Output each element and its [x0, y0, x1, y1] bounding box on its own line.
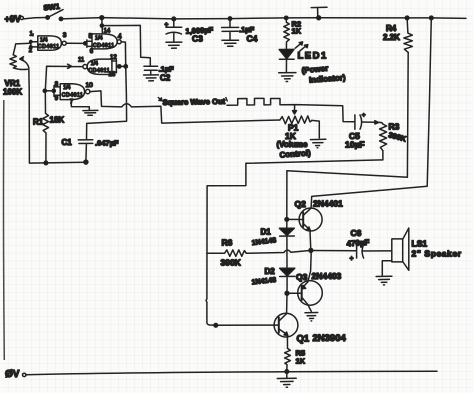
- svg-text:.1µF: .1µF: [159, 65, 175, 74]
- transistor Q2 2N4401: [285, 199, 343, 251]
- svg-text:D2: D2: [265, 267, 276, 276]
- LED LED1 power indicator: [279, 42, 346, 85]
- ground C3: [166, 42, 182, 48]
- svg-text:R1: R1: [33, 118, 44, 127]
- wire +9V power rail: [61, 18, 466, 19]
- potentiometer P1 1K volume control: [277, 106, 320, 160]
- node 0V terminal: [5, 369, 26, 380]
- svg-text:C2: C2: [160, 74, 171, 83]
- svg-text:LED1: LED1: [298, 51, 328, 62]
- op-amp gate U1A 1/4 CD4011: [29, 31, 67, 54]
- junction rail-right-drop: [430, 16, 434, 20]
- diode D2 1N4148: [251, 267, 294, 295]
- svg-text:SW1: SW1: [43, 2, 60, 13]
- capacitor C5 10uF: [345, 112, 381, 150]
- svg-text:+: +: [350, 256, 354, 263]
- wire VR1 top to U1A inputs: [13, 43, 31, 55]
- junction rail-tap: [317, 16, 321, 20]
- svg-text:Q2: Q2: [295, 199, 307, 209]
- svg-text:R4: R4: [386, 24, 397, 33]
- svg-text:D1: D1: [261, 228, 272, 237]
- svg-text:C1: C1: [62, 138, 73, 147]
- diode D1 1N4148: [251, 221, 294, 268]
- svg-text:CD4011: CD4011: [89, 68, 110, 74]
- ground main: [277, 378, 296, 387]
- wire U1B out to U1C in and C1: [87, 42, 127, 140]
- svg-text:CD4011: CD4011: [93, 43, 114, 49]
- resistor R1 18K: [33, 91, 64, 163]
- svg-text:.047µF: .047µF: [95, 139, 119, 148]
- wire U1A out to U1B in: [66, 42, 87, 45]
- capacitor C4 .1uF: [222, 19, 258, 44]
- wire U1C out to U1D inputs: [45, 64, 83, 91]
- capacitor C6 470uF: [346, 228, 391, 263]
- capacitor C1: [62, 138, 119, 164]
- svg-text:390K: 390K: [221, 258, 242, 268]
- speaker LS1 2 inch: [382, 228, 461, 275]
- op-amp gate U1D 1/4 CD4011: [43, 82, 93, 106]
- svg-text:3: 3: [63, 32, 67, 39]
- svg-text:1K: 1K: [292, 27, 302, 36]
- svg-text:14: 14: [104, 29, 111, 35]
- svg-text:2" Speaker: 2" Speaker: [412, 249, 462, 259]
- ground C4: [222, 40, 239, 46]
- op-amp gate U1C 1/4 CD4011: [78, 55, 127, 78]
- svg-text:+9V: +9V: [5, 14, 21, 24]
- svg-text:C3: C3: [192, 34, 203, 44]
- resistor R4 2.2K: [383, 18, 412, 53]
- label Square Wave Out: [158, 97, 225, 107]
- transistor Q3 2N4403: [287, 252, 342, 311]
- svg-text:Square Wave Out: Square Wave Out: [162, 97, 225, 107]
- svg-text:12: 12: [110, 55, 117, 61]
- ground Q3 collector: [305, 313, 318, 321]
- junction rail-C3: [172, 17, 176, 21]
- svg-text:1/4: 1/4: [91, 61, 98, 67]
- svg-text:2.2K: 2.2K: [383, 33, 400, 42]
- svg-text:10: 10: [86, 82, 94, 89]
- svg-text:+: +: [362, 112, 366, 119]
- svg-text:100K: 100K: [3, 88, 22, 97]
- svg-text:C4: C4: [247, 34, 258, 44]
- junction rail-C4: [228, 17, 231, 20]
- svg-text:Q3: Q3: [296, 272, 308, 282]
- node +9V terminal: [5, 14, 24, 24]
- junction rail-R4: [405, 16, 409, 20]
- svg-text:CD4011: CD4011: [62, 93, 83, 99]
- capacitor C3 1000uF: [165, 19, 214, 44]
- svg-text:2N4403: 2N4403: [312, 271, 342, 281]
- node +9V tap T symbol: [311, 7, 327, 17]
- svg-text:.1µF: .1µF: [239, 25, 255, 34]
- resistor R3 390K: [380, 122, 408, 151]
- svg-text:1/4: 1/4: [63, 85, 70, 91]
- resistor R5 1K: [285, 348, 306, 371]
- ground LED1: [279, 73, 296, 82]
- svg-text:ØV: ØV: [5, 369, 20, 380]
- svg-text:13: 13: [109, 72, 116, 78]
- wire U1D pin7 to ground: [71, 100, 89, 111]
- svg-text:+: +: [165, 21, 169, 28]
- svg-text:C6: C6: [351, 228, 362, 238]
- svg-text:2N4401: 2N4401: [313, 199, 343, 209]
- svg-text:LS1: LS1: [412, 239, 428, 249]
- junction rail-pin14: [100, 16, 104, 20]
- junction rail-R2: [285, 16, 288, 19]
- svg-text:Q1: Q1: [297, 334, 310, 345]
- svg-text:CD4011: CD4011: [38, 44, 59, 50]
- svg-text:1/4: 1/4: [95, 36, 103, 42]
- resistor R2 1K: [284, 18, 302, 49]
- wire rail right drop to Q2 collector: [311, 18, 431, 208]
- ground C2: [144, 75, 159, 81]
- svg-text:10µF: 10µF: [345, 140, 365, 150]
- op-amp gate U1B 1/4 CD4011: [87, 29, 122, 55]
- svg-text:1/4: 1/4: [40, 38, 48, 44]
- wire pin14 node to C2: [102, 25, 150, 66]
- wire U1D out squarewave step: [90, 91, 280, 123]
- wire +9V to SW1: [24, 18, 48, 19]
- svg-text:11: 11: [78, 57, 85, 63]
- wire timing node bottom: [30, 161, 86, 165]
- wire pin14 drop: [100, 18, 103, 34]
- ground LS1: [376, 276, 392, 285]
- svg-text:4: 4: [118, 34, 122, 41]
- transistor Q1 2N3904: [274, 293, 346, 348]
- svg-text:2N3904: 2N3904: [313, 333, 347, 344]
- potentiometer VR1 100K: [3, 55, 29, 163]
- svg-text:470µF: 470µF: [346, 238, 370, 249]
- capacitor C2 .1uF: [144, 65, 174, 83]
- wire 0V rail: [26, 371, 437, 375]
- square wave waveform and wire to C5: [226, 98, 355, 122]
- ground U1D pin7: [83, 110, 98, 115]
- wire R4 to Q2 base: [287, 52, 408, 219]
- junction R5 to 0V rail: [285, 370, 289, 378]
- resistor R6 390K: [207, 238, 311, 268]
- switch SW1: [43, 2, 63, 21]
- svg-text:1K: 1K: [296, 357, 306, 366]
- wire R3 bottom staircase to Q1 base: [206, 151, 383, 327]
- svg-text:R6: R6: [222, 238, 233, 248]
- svg-text:(Volume: (Volume: [277, 140, 309, 149]
- svg-text:18K: 18K: [50, 116, 65, 125]
- junction Q2-Q3 emitter node: [309, 249, 356, 253]
- ground P1: [310, 139, 325, 148]
